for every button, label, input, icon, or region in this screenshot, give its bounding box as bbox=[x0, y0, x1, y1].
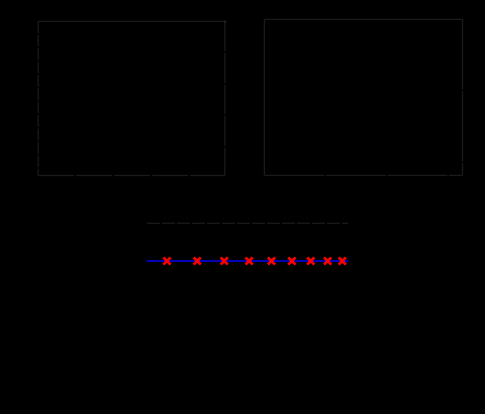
top-left axes corner dot bbox=[224, 21, 226, 23]
top-left axes frame bbox=[38, 21, 225, 175]
marker 9 bbox=[339, 257, 346, 264]
top-right axes frame bbox=[264, 19, 462, 175]
red x markers bbox=[163, 257, 346, 264]
marker 4 bbox=[246, 257, 253, 264]
marker 7 bbox=[307, 257, 314, 264]
bottom axes top spine bbox=[147, 222, 348, 224]
marker 1 bbox=[163, 257, 170, 264]
marker 6 bbox=[288, 257, 295, 264]
marker 2 bbox=[194, 257, 201, 264]
marker 3 bbox=[221, 257, 228, 264]
marker 5 bbox=[268, 257, 275, 264]
marker 8 bbox=[324, 257, 331, 264]
blue data line bbox=[147, 260, 349, 262]
